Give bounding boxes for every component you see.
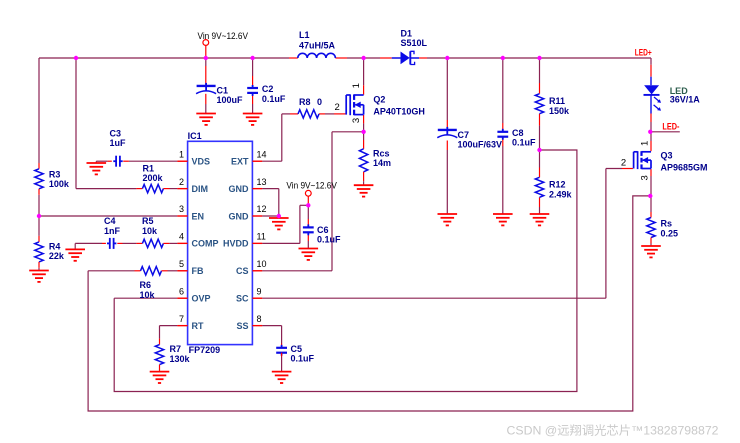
- svg-text:5: 5: [179, 259, 184, 269]
- svg-text:R4: R4: [49, 241, 61, 251]
- ground C3: [87, 161, 107, 174]
- svg-text:1uF: 1uF: [110, 138, 127, 148]
- ground C7: [438, 214, 458, 225]
- svg-text:12: 12: [257, 204, 267, 214]
- junction Vin2-HVDD-C6: [306, 203, 310, 207]
- svg-text:2: 2: [335, 102, 340, 113]
- svg-text:0: 0: [317, 97, 322, 107]
- svg-text:0.1uF: 0.1uF: [317, 235, 341, 245]
- ground C2: [243, 114, 263, 125]
- svg-text:150k: 150k: [549, 106, 570, 116]
- svg-text:EXT: EXT: [231, 157, 249, 167]
- capacitor C6: [303, 224, 341, 244]
- svg-text:1nF: 1nF: [104, 226, 121, 236]
- wire left drop to R3: [38, 58, 40, 163]
- svg-text:130k: 130k: [170, 354, 191, 364]
- svg-text:C6: C6: [317, 225, 329, 235]
- svg-text:R1: R1: [143, 164, 155, 174]
- svg-text:100k: 100k: [49, 179, 70, 189]
- wire EN net: [39, 215, 188, 217]
- ground R4: [29, 268, 49, 282]
- svg-text:R7: R7: [170, 344, 182, 354]
- svg-text:GND: GND: [229, 184, 250, 194]
- ground R7: [150, 371, 170, 383]
- svg-text:S510L: S510L: [401, 38, 428, 48]
- wire top rail Vin left segment: [39, 57, 289, 59]
- svg-text:14m: 14m: [373, 158, 391, 168]
- svg-text:2.49k: 2.49k: [549, 189, 573, 199]
- junction top rail / C7: [445, 56, 449, 60]
- svg-text:0.25: 0.25: [661, 228, 679, 238]
- svg-text:IC1: IC1: [188, 131, 202, 141]
- svg-text:VDS: VDS: [192, 157, 211, 167]
- svg-text:SS: SS: [236, 321, 248, 331]
- svg-text:R12: R12: [549, 180, 566, 190]
- pin 3 label Q2: [351, 118, 362, 123]
- svg-text:0.1uF: 0.1uF: [512, 138, 536, 148]
- op-amp U1 IC1 FP7209 controller: [177, 131, 266, 355]
- LED D2 36V/1A: [644, 85, 701, 111]
- resistor R11: [535, 94, 570, 116]
- wire SS net: [252, 326, 281, 348]
- junction top rail / DIM drop: [74, 56, 78, 60]
- svg-text:R8: R8: [299, 97, 311, 107]
- ground C4: [65, 243, 85, 260]
- svg-text:100uF: 100uF: [217, 95, 244, 105]
- svg-text:Rcs: Rcs: [373, 148, 390, 158]
- svg-text:22k: 22k: [49, 251, 65, 261]
- resistor R3: [35, 163, 70, 195]
- junction Q2 source-Rcs-CS: [361, 130, 365, 134]
- svg-text:COMP: COMP: [192, 239, 219, 249]
- junction top rail / R11: [537, 56, 541, 60]
- wire COMP row: [75, 242, 187, 244]
- svg-text:8: 8: [257, 314, 262, 324]
- svg-text:CS: CS: [236, 266, 249, 276]
- svg-text:0.1uF: 0.1uF: [291, 354, 315, 364]
- diode D1 S510L schottky: [392, 29, 428, 65]
- junction LED cathode: [648, 130, 652, 134]
- junction top rail / C8: [501, 56, 505, 60]
- resistor R8: [298, 97, 322, 118]
- svg-text:10k: 10k: [142, 226, 158, 236]
- resistor Rcs: [359, 148, 391, 181]
- svg-text:DIM: DIM: [192, 184, 209, 194]
- svg-text:3: 3: [351, 118, 362, 123]
- pin 2 label Q2: [335, 102, 340, 113]
- svg-text:47uH/5A: 47uH/5A: [299, 40, 336, 50]
- junction top rail / Vin-C1: [204, 56, 208, 60]
- svg-text:1: 1: [640, 141, 651, 146]
- wire LED- stub: [650, 131, 680, 133]
- junction R3-R4-EN: [37, 214, 41, 218]
- wire GND13 net: [252, 189, 278, 216]
- wire EXT net: [252, 114, 298, 161]
- wire top rail D1-to-LED segment: [419, 57, 651, 59]
- wire OVP row: [114, 297, 187, 299]
- resistor R6: [135, 267, 168, 300]
- wire FB bottom loop: [88, 196, 650, 411]
- svg-text:0.1uF: 0.1uF: [262, 94, 286, 104]
- wire R11-R12 branch: [539, 58, 541, 214]
- svg-text:Vin 9V~12.6V: Vin 9V~12.6V: [286, 180, 337, 191]
- svg-text:FP7209: FP7209: [189, 345, 221, 355]
- ground C6: [299, 249, 319, 260]
- svg-text:AP9685GM: AP9685GM: [661, 163, 708, 173]
- pin 1 label Q3: [640, 141, 651, 146]
- wire C1 branch: [205, 45, 207, 113]
- watermark: [507, 424, 719, 438]
- wire C7 branch: [446, 58, 448, 214]
- junction GND pins: [277, 214, 281, 218]
- svg-text:OVP: OVP: [192, 294, 211, 304]
- ground Rs: [641, 244, 661, 258]
- svg-text:AP40T10GH: AP40T10GH: [373, 106, 425, 116]
- svg-text:Rs: Rs: [661, 219, 673, 229]
- transistor Q2 AP40T10GH: [346, 94, 425, 116]
- svg-text:200k: 200k: [143, 173, 164, 183]
- svg-text:R6: R6: [140, 280, 152, 290]
- svg-text:Q3: Q3: [661, 150, 673, 160]
- node Vin terminal 2: [286, 180, 337, 196]
- ground C5: [272, 372, 292, 383]
- svg-text:HVDD: HVDD: [223, 239, 249, 249]
- capacitor C1: [196, 83, 243, 105]
- svg-text:L1: L1: [299, 30, 310, 40]
- svg-text:3: 3: [179, 204, 184, 214]
- wire DIM row: [76, 188, 188, 190]
- inductor L1: [289, 30, 336, 58]
- svg-text:C3: C3: [110, 129, 122, 139]
- svg-text:SC: SC: [236, 294, 249, 304]
- svg-text:7: 7: [179, 314, 184, 324]
- wire RT row: [160, 326, 188, 339]
- junction top rail / Q2 drain: [361, 56, 365, 60]
- node Vin terminal 1: [198, 31, 249, 45]
- junction R11-R12-OVP tap: [537, 148, 541, 152]
- svg-text:4: 4: [179, 232, 184, 242]
- wire DIM drop x76: [75, 58, 77, 189]
- svg-text:D1: D1: [401, 29, 413, 39]
- svg-text:10k: 10k: [140, 290, 156, 300]
- svg-text:3: 3: [640, 175, 651, 180]
- capacitor C5: [276, 344, 314, 372]
- ground C1: [196, 114, 216, 125]
- capacitor C3: [110, 129, 127, 167]
- svg-text:C5: C5: [291, 344, 303, 354]
- pin 2 label Q3: [621, 157, 626, 168]
- svg-text:LED+: LED+: [635, 48, 652, 59]
- ground IC GND pins: [269, 216, 289, 229]
- resistor R12: [535, 177, 572, 199]
- resistor Rs: [647, 218, 678, 244]
- wire FB row: [88, 270, 188, 272]
- svg-text:100uF/63V: 100uF/63V: [458, 140, 503, 150]
- resistor R7: [155, 339, 190, 371]
- wire top rail L1-to-Q2 segment: [335, 57, 391, 59]
- capacitor C7: [437, 127, 502, 150]
- svg-text:36V/1A: 36V/1A: [670, 95, 701, 105]
- wire Q3 source to Rs: [650, 169, 652, 217]
- svg-text:13: 13: [257, 177, 267, 187]
- wire HVDD net: [252, 205, 308, 243]
- pin 1 label Q2: [351, 83, 362, 88]
- node LED- label: [662, 121, 679, 132]
- wire C8 branch: [502, 58, 504, 214]
- wire CS net: [252, 132, 363, 271]
- svg-text:9: 9: [257, 286, 262, 296]
- ground C8: [493, 214, 513, 225]
- wire Q2 drain: [363, 58, 365, 95]
- svg-text:GND: GND: [229, 211, 250, 221]
- svg-text:C4: C4: [104, 216, 116, 226]
- svg-text:C7: C7: [458, 130, 470, 140]
- wire OVP bottom loop: [114, 150, 577, 392]
- wire LED column: [650, 58, 652, 132]
- svg-text:LED-: LED-: [662, 121, 679, 132]
- ground R12: [530, 214, 550, 225]
- svg-text:10: 10: [257, 259, 267, 269]
- capacitor C8: [497, 128, 536, 148]
- svg-text:1: 1: [179, 149, 184, 159]
- svg-text:CSDN @远翔调光芯片™13828798872: CSDN @远翔调光芯片™13828798872: [507, 424, 719, 438]
- svg-text:2: 2: [179, 177, 184, 187]
- ground Rcs: [354, 181, 374, 196]
- svg-text:Vin 9V~12.6V: Vin 9V~12.6V: [198, 31, 249, 42]
- svg-text:R3: R3: [49, 169, 61, 179]
- svg-text:C8: C8: [512, 128, 524, 138]
- svg-text:C2: C2: [262, 84, 274, 94]
- resistor R1: [136, 164, 169, 193]
- wire Q3 drain: [650, 132, 652, 151]
- svg-text:EN: EN: [192, 211, 205, 221]
- svg-text:6: 6: [179, 286, 184, 296]
- wire GND12 net: [252, 215, 278, 217]
- wire VDS row: [96, 160, 187, 162]
- svg-text:14: 14: [257, 149, 267, 159]
- wire HVDD Vin drop: [307, 196, 309, 248]
- svg-text:1: 1: [351, 83, 362, 88]
- svg-text:Q2: Q2: [373, 94, 385, 104]
- capacitor C4: [104, 216, 121, 249]
- junction top rail / C2: [250, 56, 254, 60]
- wire Q2 source to Rcs: [363, 115, 365, 149]
- node LED+ label: [635, 48, 652, 59]
- wire R8 to Q2 gate: [319, 113, 346, 115]
- wire SC net: [252, 169, 633, 299]
- pin 3 label Q3: [640, 175, 651, 180]
- svg-text:C1: C1: [217, 85, 229, 95]
- svg-text:2: 2: [621, 157, 626, 168]
- resistor R4: [35, 236, 65, 268]
- wire R3-R4 to EN: [38, 195, 40, 236]
- svg-text:RT: RT: [192, 321, 204, 331]
- svg-text:FB: FB: [192, 266, 204, 276]
- resistor R5: [136, 216, 169, 247]
- capacitor C2: [247, 84, 286, 104]
- svg-text:R11: R11: [549, 96, 565, 106]
- transistor Q3 AP9685GM: [634, 150, 708, 172]
- wire C2 branch: [252, 58, 254, 114]
- svg-text:R5: R5: [142, 216, 154, 226]
- junction Q3 source-Rs-FB: [648, 194, 652, 198]
- svg-text:11: 11: [257, 232, 266, 242]
